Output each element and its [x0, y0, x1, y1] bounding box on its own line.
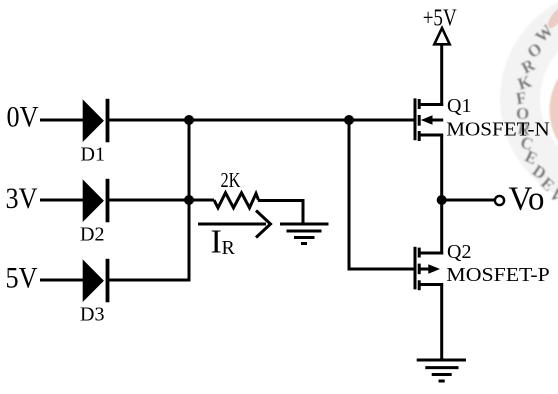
svg-text:D2: D2 [80, 224, 104, 246]
svg-text:D1: D1 [81, 144, 105, 166]
svg-text:MOSFET-N: MOSFET-N [446, 119, 550, 141]
svg-text:R: R [222, 237, 236, 259]
svg-text:I: I [211, 224, 222, 261]
svg-text:Q2: Q2 [447, 241, 471, 263]
svg-text:3V: 3V [6, 182, 38, 215]
svg-text:5V: 5V [6, 262, 38, 295]
svg-text:MOSFET-P: MOSFET-P [446, 264, 550, 286]
svg-text:Vo: Vo [509, 181, 545, 218]
svg-text:Q1: Q1 [447, 95, 471, 117]
svg-text:+5V: +5V [423, 6, 458, 32]
svg-text:0V: 0V [7, 101, 39, 134]
svg-text:2K: 2K [221, 168, 241, 192]
svg-text:D3: D3 [80, 304, 104, 326]
